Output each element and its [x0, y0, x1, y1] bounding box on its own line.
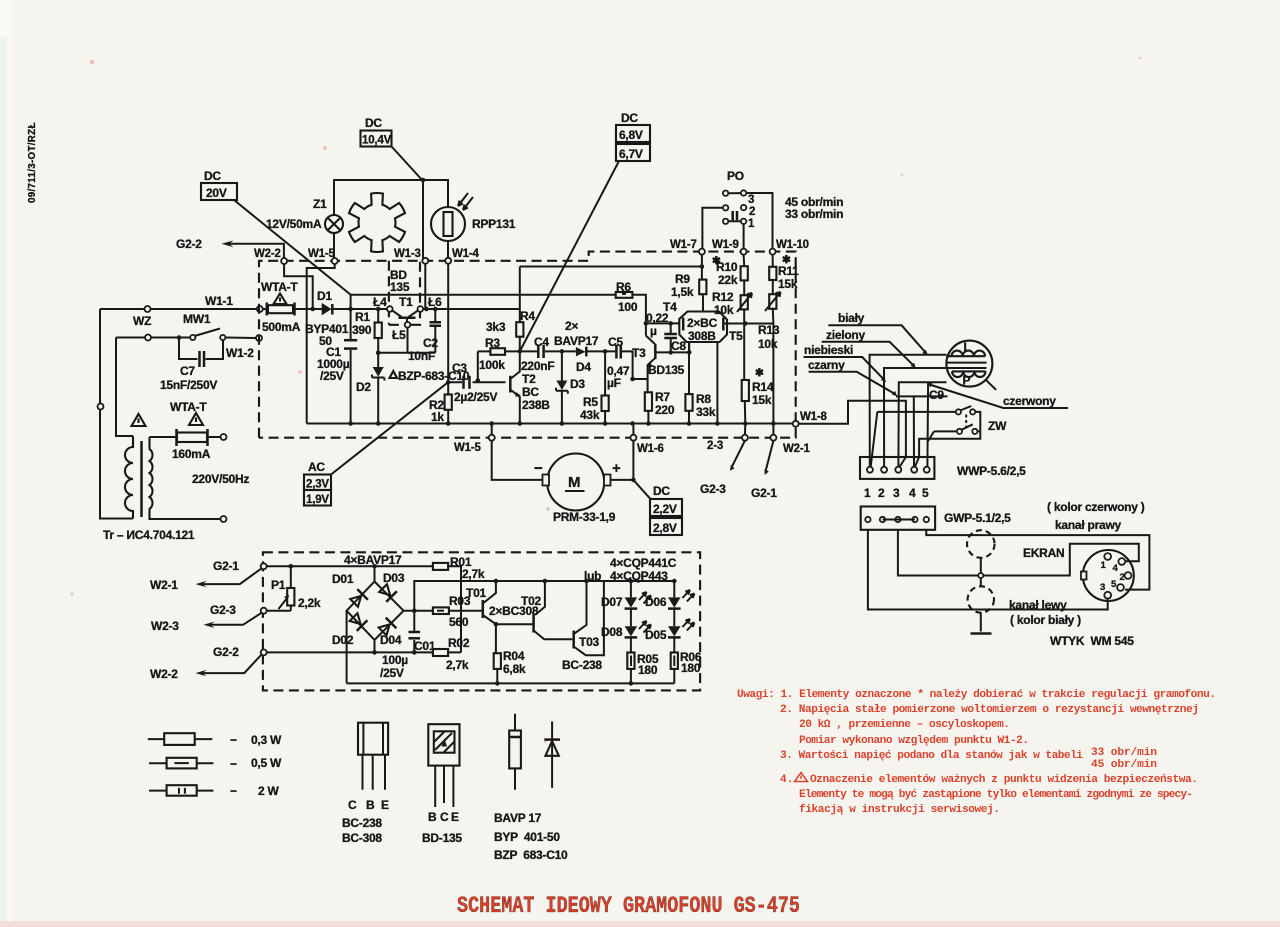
svg-text:09/711/3-OT/RZŁ: 09/711/3-OT/RZŁ — [27, 122, 38, 203]
package BD-135 — [428, 724, 459, 765]
svg-text:WTYK WM 545: WTYK WM 545 — [1050, 634, 1134, 648]
svg-text:kanał prawy: kanał prawy — [1055, 518, 1122, 532]
svg-text:BC-238: BC-238 — [562, 658, 602, 672]
red notes — [457, 689, 1216, 919]
svg-text:180: 180 — [681, 661, 701, 675]
svg-text:4: 4 — [909, 486, 916, 500]
resistor R9 1,5k — [699, 280, 706, 295]
svg-text:100k: 100k — [479, 358, 505, 372]
transformer Tr secondary — [150, 437, 221, 519]
wire left mains drop — [100, 309, 133, 519]
svg-text:✱: ✱ — [755, 367, 764, 379]
svg-text:R04: R04 — [503, 649, 525, 663]
capacitor C1 1000u/25V — [344, 339, 357, 342]
resistor R06 180 — [671, 653, 678, 669]
resistor R05 180 — [627, 653, 634, 669]
svg-text:1k: 1k — [431, 410, 444, 424]
wire W1-3 drop — [424, 264, 426, 309]
svg-text:4×CQP443: 4×CQP443 — [610, 569, 668, 583]
arrow W2-3 — [207, 613, 262, 625]
wire W1-4 drop to T2 base node — [447, 264, 449, 383]
svg-text:MW1: MW1 — [183, 312, 211, 326]
legend — [148, 714, 568, 862]
resistor R04 6,8k — [496, 653, 498, 683]
svg-text:Elementy te mogą być zastąpion: Elementy te mogą być zastąpione tylko el… — [799, 789, 1193, 801]
svg-text:GWP-5.1/2,5: GWP-5.1/2,5 — [944, 511, 1011, 525]
svg-text:W1-5: W1-5 — [308, 248, 335, 260]
svg-text:W2-2: W2-2 — [150, 667, 178, 681]
pickup lead wires to WWP — [870, 355, 948, 467]
wire czerwony drop to pin5 — [926, 382, 929, 467]
bridge rectifier D01-D04 — [372, 564, 377, 569]
left mains section — [98, 237, 449, 542]
connector strip WWP-5.6/2,5 — [860, 457, 934, 479]
wire T1 out — [423, 308, 520, 310]
svg-text:ZW: ZW — [988, 419, 1007, 433]
svg-text:Tr – ИC4.704.121: Tr – ИC4.704.121 — [103, 528, 195, 542]
svg-text:biały: biały — [838, 311, 865, 325]
svg-text:6,7V: 6,7V — [619, 147, 643, 161]
svg-text:+: + — [612, 460, 621, 477]
svg-text:G2-2: G2-2 — [176, 237, 202, 251]
svg-text:T2: T2 — [522, 372, 536, 386]
svg-text:2,3V: 2,3V — [306, 479, 329, 491]
svg-text:3. Wartości napięć podano dla: 3. Wartości napięć podano dla stanów jak… — [780, 750, 1083, 762]
stylus handle — [986, 380, 996, 390]
svg-text:M: M — [568, 474, 581, 491]
svg-text:Ł4: Ł4 — [373, 295, 387, 309]
junction node D1 anode — [310, 307, 315, 312]
svg-text:C3: C3 — [452, 361, 467, 375]
svg-text:1: 1 — [864, 486, 871, 500]
svg-text:2,7k: 2,7k — [446, 658, 469, 672]
svg-text:−: − — [230, 784, 237, 798]
pointer wire AC box to T2 base node — [331, 382, 448, 474]
top measurement boxes — [201, 111, 843, 351]
bridge to rails — [347, 581, 675, 683]
svg-text:PRM-33-1,9: PRM-33-1,9 — [553, 510, 616, 524]
svg-text:C9: C9 — [929, 388, 944, 402]
svg-text:390: 390 — [352, 323, 372, 337]
svg-text:G2-1: G2-1 — [213, 559, 239, 573]
svg-text:100µ: 100µ — [382, 653, 408, 667]
svg-text:R14: R14 — [752, 380, 774, 394]
diode symbol — [551, 722, 553, 788]
svg-text:220V/50Hz: 220V/50Hz — [192, 472, 249, 486]
svg-text:µF: µF — [607, 376, 621, 390]
svg-text:Pomiar wykonano względem punkt: Pomiar wykonano względem punktu W1-2. — [799, 735, 1029, 747]
light arrows to RPP131 — [458, 193, 473, 210]
terminal WZ upper — [145, 306, 151, 312]
svg-text:BAVP 17: BAVP 17 — [494, 811, 542, 825]
svg-text:R5: R5 — [583, 395, 598, 409]
pointer wire from DC6,8V to T2 collector node — [520, 161, 619, 351]
svg-text:W2-1: W2-1 — [150, 578, 178, 592]
wire W2-2 to D1 cathode node — [284, 264, 313, 309]
wire right channel — [926, 530, 1149, 590]
svg-text:4.: 4. — [780, 774, 793, 786]
svg-text:B: B — [366, 798, 375, 812]
strobe gear wheel — [349, 193, 405, 252]
svg-text:D04: D04 — [380, 633, 402, 647]
svg-text:500mA: 500mA — [262, 320, 301, 334]
terminal secondary bottom — [221, 516, 227, 522]
svg-text:PO: PO — [727, 169, 744, 183]
svg-text:2: 2 — [878, 486, 885, 500]
LED D06 — [672, 579, 677, 584]
junction T2 collector node — [518, 349, 523, 354]
DIN plug WTYK WM 545 — [1083, 550, 1134, 601]
svg-text:C7: C7 — [180, 364, 195, 378]
svg-text:160mA: 160mA — [172, 447, 211, 461]
lower dashed enclosure — [263, 552, 700, 690]
svg-text:BD135: BD135 — [648, 363, 685, 377]
svg-text:2: 2 — [749, 206, 755, 218]
LED D07 — [629, 579, 634, 584]
svg-text:WTA-T: WTA-T — [261, 280, 298, 294]
wire main 10V line — [351, 295, 387, 424]
svg-text:R7: R7 — [655, 390, 670, 404]
svg-text:B: B — [428, 810, 437, 824]
doc number vertical text — [70, 57, 1141, 744]
svg-text:W1-7: W1-7 — [670, 239, 697, 251]
svg-text:RPP131: RPP131 — [472, 217, 516, 231]
pickup cartridge — [946, 341, 992, 387]
terminal on left drop — [98, 404, 104, 410]
svg-text:−: − — [230, 757, 237, 771]
svg-text:0,3 W: 0,3 W — [251, 733, 282, 747]
svg-text:220: 220 — [655, 403, 675, 417]
shield circle upper — [967, 530, 995, 558]
svg-text:D06: D06 — [645, 595, 667, 609]
svg-text:33k: 33k — [696, 405, 716, 419]
connector strip GWP-5.1/2,5 — [861, 507, 935, 530]
svg-text:15k: 15k — [778, 277, 798, 291]
package diode BAVP — [514, 714, 516, 790]
junction node lamp rail / W1-3 — [421, 178, 426, 183]
trimmer R12 10k — [741, 295, 748, 309]
package TO-92 BC-238/BC-308 — [358, 723, 388, 755]
svg-text:W1-4: W1-4 — [452, 248, 479, 260]
svg-text:Oznaczenie elementów ważnych z: Oznaczenie elementów ważnych z punktu wi… — [810, 774, 1198, 786]
diode D02 — [348, 612, 367, 631]
svg-text:T3: T3 — [632, 346, 646, 360]
svg-text:D01: D01 — [332, 572, 354, 586]
svg-text:kanał lewy: kanał lewy — [1009, 598, 1067, 612]
svg-text:DC: DC — [653, 484, 670, 498]
svg-text:2,7k: 2,7k — [462, 567, 485, 581]
svg-text:R02: R02 — [448, 636, 470, 650]
svg-text:DC: DC — [621, 111, 638, 125]
svg-text:1: 1 — [748, 218, 755, 230]
svg-text:WZ: WZ — [133, 314, 151, 328]
svg-text:220nF: 220nF — [521, 359, 554, 373]
svg-text:2×: 2× — [565, 319, 578, 333]
svg-text:C2: C2 — [423, 336, 438, 350]
zener D3 — [561, 351, 563, 423]
pointer wire from DC20V to 20V rail — [234, 200, 351, 295]
capacitor C01 100u/25V — [409, 631, 421, 634]
svg-text:560: 560 — [449, 615, 469, 629]
svg-text:BZP 683-C10: BZP 683-C10 — [494, 848, 568, 862]
svg-text:G2-3: G2-3 — [210, 603, 236, 617]
svg-text:0,5 W: 0,5 W — [251, 756, 282, 770]
svg-text:BYP 401-50: BYP 401-50 — [494, 830, 560, 844]
svg-text:C: C — [440, 810, 449, 824]
svg-text:BD-135: BD-135 — [422, 831, 462, 845]
svg-text:✱: ✱ — [712, 255, 721, 267]
svg-text:T02: T02 — [521, 594, 542, 608]
svg-text:−: − — [534, 460, 543, 477]
supply rail upper — [520, 267, 703, 323]
svg-text:10k: 10k — [714, 303, 734, 317]
svg-text:/25V: /25V — [380, 666, 404, 680]
wire MW1 to primary — [116, 338, 133, 437]
diode D01 — [349, 589, 368, 608]
motor PRM-33-1,9 — [492, 424, 634, 480]
terminal W1-1 — [257, 306, 263, 312]
svg-text:P: P — [963, 374, 971, 388]
bottom bus inside box — [307, 423, 796, 425]
svg-text:D05: D05 — [645, 628, 667, 642]
svg-text:fikacją w instrukcji serwisowe: fikacją w instrukcji serwisowej. — [799, 804, 1000, 816]
svg-text:33 obr/min: 33 obr/min — [785, 207, 843, 221]
svg-text:3k3: 3k3 — [486, 320, 506, 334]
svg-text:20 kΩ , przemienne – oscylosko: 20 kΩ , przemienne – oscyloskopem. — [799, 719, 1010, 731]
svg-text:6,8k: 6,8k — [503, 662, 526, 676]
svg-text:W1-6: W1-6 — [637, 443, 664, 455]
svg-text:308B: 308B — [688, 329, 716, 343]
svg-text:10,4V: 10,4V — [362, 135, 392, 147]
svg-text:AC: AC — [308, 460, 325, 474]
svg-text:R11: R11 — [778, 264, 799, 278]
dashed thermal box around T1 — [389, 261, 420, 325]
resistor R5 43k — [604, 351, 606, 423]
svg-text:W1-9: W1-9 — [712, 239, 739, 251]
terminal W1-2 — [256, 335, 262, 341]
svg-text:P1: P1 — [271, 578, 286, 592]
svg-text:10nF: 10nF — [408, 349, 435, 363]
potentiometer P1 2,2k — [289, 564, 294, 569]
diode D04 — [377, 618, 396, 637]
legend resistor 0,5W — [149, 762, 214, 764]
svg-text:✱: ✱ — [782, 254, 791, 266]
shield circle lower — [968, 586, 994, 612]
svg-text:niebieski: niebieski — [804, 343, 853, 357]
rail G2-2 — [267, 651, 461, 653]
svg-text:2 W: 2 W — [258, 784, 280, 798]
svg-text:µ: µ — [650, 324, 657, 338]
lower supply box — [150, 552, 702, 690]
main dashed enclosure — [259, 252, 796, 438]
svg-text:lub: lub — [584, 569, 601, 583]
arrow W2-1 — [199, 568, 262, 584]
legend resistor 2W — [149, 790, 214, 792]
junction T5 out — [743, 321, 748, 326]
svg-text:−: − — [230, 733, 237, 747]
rail G2-1 top — [267, 566, 461, 652]
resistor R01 2,7k — [433, 563, 448, 570]
svg-text:2×BC: 2×BC — [687, 316, 718, 330]
trimmer R13 10k — [769, 294, 776, 309]
svg-text:R13: R13 — [758, 323, 780, 337]
main dashed box and amplifier — [254, 248, 796, 438]
svg-text:T5: T5 — [729, 329, 743, 343]
svg-text:BAVP17: BAVP17 — [554, 334, 599, 348]
capacitor C2 10nF — [433, 307, 438, 312]
svg-text:3: 3 — [1100, 582, 1105, 593]
resistor R02 2,7k — [433, 649, 448, 656]
wire left channel — [868, 530, 1108, 610]
svg-text:W2-3: W2-3 — [151, 619, 179, 633]
svg-text:3: 3 — [748, 194, 754, 206]
svg-text:33 obr/min: 33 obr/min — [1091, 747, 1157, 759]
svg-text:15k: 15k — [752, 393, 772, 407]
svg-text:1,9V: 1,9V — [306, 494, 329, 506]
svg-text:D3: D3 — [570, 377, 585, 391]
svg-text:15nF/250V: 15nF/250V — [160, 378, 217, 392]
svg-text:G2-3: G2-3 — [700, 482, 726, 496]
svg-text:G2-1: G2-1 — [751, 486, 777, 500]
svg-text:10k: 10k — [758, 337, 778, 351]
switch ZW — [871, 412, 981, 467]
junction R2/C3 node — [446, 380, 451, 385]
svg-text:12V/50mA: 12V/50mA — [266, 217, 322, 231]
svg-text:4×CQP441C: 4×CQP441C — [610, 556, 677, 570]
svg-text:T4: T4 — [663, 300, 677, 314]
resistor R1 390 — [376, 307, 381, 312]
svg-text:4: 4 — [1113, 563, 1119, 574]
svg-text:5: 5 — [922, 486, 929, 500]
svg-text:5: 5 — [1111, 579, 1117, 590]
svg-text:BC-308: BC-308 — [342, 831, 382, 845]
svg-text:E: E — [381, 798, 389, 812]
lower bus — [347, 682, 675, 684]
svg-text:W2-1: W2-1 — [783, 443, 810, 455]
terminal WZ lower — [145, 335, 151, 341]
svg-text:W1-10: W1-10 — [776, 239, 809, 251]
wire W1-1 mains — [100, 308, 257, 310]
svg-text:20V: 20V — [206, 186, 227, 200]
svg-text:D08: D08 — [601, 625, 623, 639]
transformer core — [140, 441, 143, 517]
svg-text:22k: 22k — [718, 273, 738, 287]
svg-text:2. Napięcia stałe pomierzone w: 2. Napięcia stałe pomierzone woltomierze… — [780, 704, 1199, 716]
transformer Tr primary — [125, 436, 133, 519]
svg-text:W1-2: W1-2 — [226, 346, 254, 360]
svg-text:R8: R8 — [696, 392, 711, 406]
svg-text:100: 100 — [618, 300, 638, 314]
svg-text:DC: DC — [365, 116, 382, 130]
svg-text:G2-2: G2-2 — [213, 645, 239, 659]
svg-text:180: 180 — [638, 663, 658, 677]
LED D08 — [625, 626, 638, 636]
svg-text:238B: 238B — [522, 398, 550, 412]
svg-text:W1-8: W1-8 — [800, 411, 827, 423]
svg-text:D2: D2 — [356, 380, 371, 394]
wire W1-5 to bottom bus — [307, 264, 335, 424]
legend resistor 0,3W — [148, 738, 213, 740]
node junction C7 left — [177, 335, 182, 340]
svg-text:W1-3: W1-3 — [394, 248, 421, 260]
warning triangle left — [132, 414, 146, 426]
arrow to G2-3 — [732, 441, 745, 468]
svg-text:C: C — [348, 798, 357, 812]
svg-text:2µ2/25V: 2µ2/25V — [454, 390, 497, 404]
resistor R14 15k — [742, 380, 749, 401]
svg-text:45 obr/min: 45 obr/min — [1091, 759, 1157, 771]
right side connectors — [799, 311, 1150, 648]
svg-text:E: E — [451, 810, 459, 824]
svg-text:R9: R9 — [675, 272, 690, 286]
svg-text:D07: D07 — [601, 595, 623, 609]
capacitor C7 — [179, 338, 223, 360]
resistor R7 220 — [647, 379, 650, 424]
ground — [971, 632, 992, 635]
PO wiring — [702, 193, 772, 249]
svg-text:T03: T03 — [579, 635, 600, 649]
svg-text:R4: R4 — [520, 309, 535, 323]
svg-text:2-3: 2-3 — [707, 440, 723, 452]
pointer wire from DC10,4V to W1-3 node — [392, 147, 423, 181]
measure box DC 2,2V 2,8V — [633, 480, 651, 500]
svg-text:zielony: zielony — [826, 328, 866, 342]
svg-text:( kolor biały ): ( kolor biały ) — [1010, 613, 1081, 627]
svg-text:BC: BC — [522, 385, 539, 399]
zener D2 BZP-683-C10 — [376, 351, 381, 356]
svg-text:C4: C4 — [534, 335, 549, 349]
wire W1-8 to strip — [799, 401, 906, 467]
svg-text:D02: D02 — [332, 633, 354, 647]
svg-text:R12: R12 — [712, 290, 734, 304]
svg-text:2,2k: 2,2k — [298, 596, 321, 610]
svg-text:Uwagi: 1. Elementy oznaczone *: Uwagi: 1. Elementy oznaczone * należy do… — [737, 689, 1216, 701]
resistor R10 22k — [741, 266, 748, 280]
svg-text:DC: DC — [204, 169, 221, 183]
wire EKRAN — [898, 530, 1139, 576]
svg-text:czarny: czarny — [808, 358, 845, 372]
resistor R03 560 — [414, 610, 482, 612]
svg-text:3: 3 — [893, 486, 900, 500]
fuse WTA-T 160mA — [150, 436, 221, 438]
svg-text:2: 2 — [1120, 572, 1125, 583]
junction C1 top — [348, 307, 353, 312]
svg-text:43k: 43k — [580, 408, 600, 422]
wire Z1 top rail — [334, 180, 448, 261]
arrow W2-2 — [199, 655, 262, 674]
svg-text:C8: C8 — [671, 339, 686, 353]
resistor R11 15k — [769, 267, 776, 280]
svg-text:WWP-5.6/2,5: WWP-5.6/2,5 — [957, 464, 1026, 478]
svg-text:EKRAN: EKRAN — [1023, 546, 1064, 560]
svg-text:D1: D1 — [317, 289, 332, 303]
svg-text:6,8V: 6,8V — [619, 128, 643, 142]
svg-text:( kolor czerwony ): ( kolor czerwony ) — [1047, 500, 1145, 514]
wire 20V rail — [351, 295, 646, 336]
svg-text:T1: T1 — [399, 295, 413, 309]
svg-text:SCHEMAT IDEOWY GRAMOFONU GS-47: SCHEMAT IDEOWY GRAMOFONU GS-475 — [457, 893, 800, 919]
svg-text:WTA-T: WTA-T — [170, 400, 207, 414]
svg-text:W2-2: W2-2 — [254, 248, 281, 260]
resistor R8 33k — [688, 342, 690, 424]
svg-text:1: 1 — [1101, 560, 1107, 571]
svg-text:2,8V: 2,8V — [653, 521, 677, 535]
svg-text:135: 135 — [390, 280, 410, 294]
node W1-8 — [793, 421, 799, 427]
svg-text:1,5k: 1,5k — [671, 285, 694, 299]
LED D05 — [668, 626, 681, 636]
diode D03 — [378, 583, 397, 602]
